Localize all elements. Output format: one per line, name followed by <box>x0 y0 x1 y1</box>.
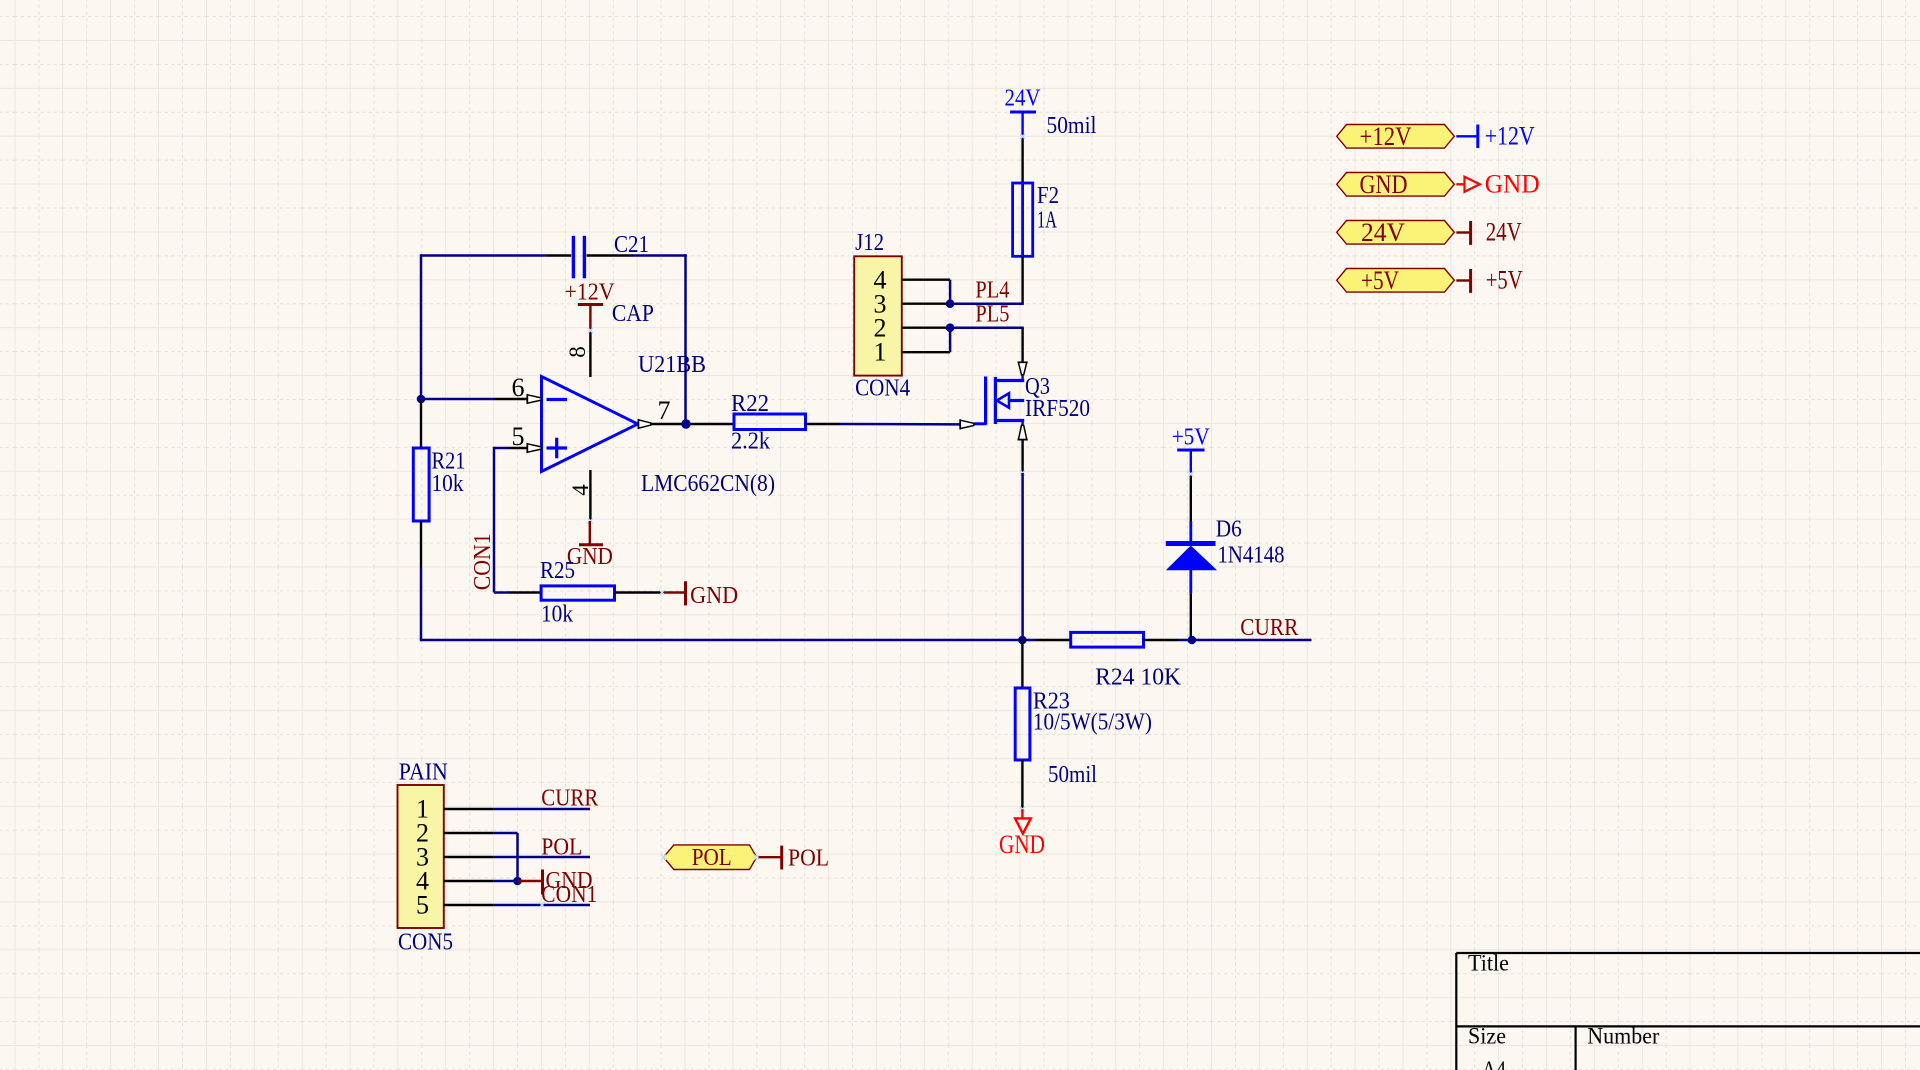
svg-text:D6: D6 <box>1216 517 1242 543</box>
svg-text:CURR: CURR <box>1240 615 1298 641</box>
svg-text:+12V: +12V <box>1360 122 1412 151</box>
svg-text:J12: J12 <box>855 230 884 256</box>
bottom rail wire <box>421 639 1022 642</box>
wire to pin 6 <box>421 398 494 401</box>
pin 6 of U21BB <box>494 398 528 400</box>
pin 4 of U21BB <box>589 470 591 521</box>
wire feedback top-right horizontal <box>633 254 687 257</box>
svg-text:4: 4 <box>568 484 593 496</box>
pin 2 stub of CON5 <box>444 832 494 834</box>
svg-text:R22: R22 <box>731 391 769 417</box>
wire net CON1 from CON5 pin5 <box>494 904 590 907</box>
svg-text:PL5: PL5 <box>975 302 1009 328</box>
pin drain of Q3 <box>1021 328 1023 363</box>
pin 8 of U21BB <box>589 331 591 378</box>
svg-text:+5V: +5V <box>1172 425 1211 451</box>
power port GND (op-amp pin 4) <box>589 521 591 545</box>
hex port +5V <box>1337 269 1455 293</box>
svg-text:6: 6 <box>512 373 525 402</box>
wire source down to rail <box>1021 473 1024 641</box>
hex port POL <box>664 845 757 870</box>
junction J12 pin2 <box>946 323 955 332</box>
op-amp plus input sign <box>547 446 568 449</box>
svg-text:GND: GND <box>1485 170 1540 199</box>
svg-text:5: 5 <box>512 422 525 451</box>
fuse F2 <box>1021 183 1024 256</box>
svg-text:POL: POL <box>788 845 829 871</box>
pin 5 stub of CON5 <box>444 904 494 906</box>
power port GND right red <box>1456 183 1464 185</box>
wire joining J12 pins 4-3 <box>949 280 952 304</box>
connector J12 body <box>854 256 902 375</box>
svg-text:24V: 24V <box>1005 86 1042 112</box>
wire pin5 vertical down <box>493 447 496 593</box>
wire net CURR from CON5 pin1 <box>494 808 590 811</box>
svg-text:7: 7 <box>658 396 671 425</box>
pin 1 stub of J12 <box>902 351 950 353</box>
svg-text:Size: Size <box>1468 1024 1506 1049</box>
connector CON5 body <box>398 785 444 928</box>
power port +12V (op-amp pin 8) <box>578 303 603 306</box>
pin 4 stub of J12 <box>902 279 950 281</box>
title block border <box>1456 952 1920 954</box>
power port GND bottom red <box>1021 809 1023 818</box>
wire feedback left vertical <box>420 254 423 399</box>
svg-text:PAIN: PAIN <box>399 760 448 786</box>
wire feedback top-left horizontal <box>421 254 547 257</box>
wire R22 to Q3 gate <box>840 423 960 426</box>
svg-text:24V: 24V <box>1486 218 1522 247</box>
junction diode-rail <box>1188 636 1197 645</box>
svg-text:+5V: +5V <box>1361 266 1399 295</box>
svg-text:50mil: 50mil <box>1047 113 1097 139</box>
junction at output node <box>681 419 691 429</box>
svg-text:10k: 10k <box>541 602 573 628</box>
pin 1 stub of CON5 <box>444 808 494 810</box>
power port GND at CON5 <box>518 880 543 882</box>
junction source-rail <box>1018 636 1027 645</box>
wire net PL4 <box>950 302 1024 305</box>
svg-text:LMC662CN(8): LMC662CN(8) <box>641 471 775 497</box>
wire rail right <box>1022 639 1036 642</box>
hex port GND <box>1337 173 1455 197</box>
svg-text:CON4: CON4 <box>855 376 910 402</box>
power port POL right of hex <box>759 856 781 858</box>
hex port 24V <box>1337 221 1455 245</box>
svg-text:+12V: +12V <box>1485 122 1535 151</box>
svg-text:24V: 24V <box>1361 218 1405 247</box>
op-amp minus input sign <box>547 398 568 401</box>
pin diode bottom <box>1190 593 1192 640</box>
wire CON5 pin2 to pin4 node <box>494 832 518 835</box>
op-amp U21BB triangle <box>542 377 638 472</box>
svg-text:U21BB: U21BB <box>638 352 706 378</box>
pin 3 stub of CON5 <box>444 856 494 858</box>
svg-text:2.2k: 2.2k <box>731 429 770 455</box>
svg-text:IRF520: IRF520 <box>1025 396 1090 422</box>
junction CON5 pin4 <box>513 877 522 886</box>
svg-text:Number: Number <box>1587 1024 1659 1049</box>
pin 4 stub of CON5 <box>444 880 494 882</box>
diode D6 <box>1189 521 1192 544</box>
junction J12 pin3 <box>946 299 955 308</box>
wire net PL5 <box>950 326 1024 329</box>
resistor R23 <box>1021 640 1023 688</box>
svg-text:50mil: 50mil <box>1048 762 1097 788</box>
pin 7 of U21BB output <box>638 420 650 428</box>
pin 5 of U21BB <box>508 447 528 449</box>
transistor Q3 MOSFET <box>984 377 987 425</box>
svg-text:10k: 10k <box>432 471 464 497</box>
resistor R21 <box>420 399 422 448</box>
wire CON5 pin4 segment <box>494 880 518 883</box>
pin 3 stub of J12 <box>902 303 950 305</box>
svg-text:8: 8 <box>565 346 590 358</box>
pin fuse bottom <box>1021 256 1023 303</box>
svg-text:1A: 1A <box>1037 208 1057 234</box>
wire R24 to diode node <box>1178 639 1192 642</box>
svg-text:PL4: PL4 <box>975 278 1009 304</box>
svg-text:A4: A4 <box>1482 1057 1506 1070</box>
svg-text:POL: POL <box>541 835 582 861</box>
svg-text:Title: Title <box>1468 951 1509 976</box>
svg-text:F2: F2 <box>1037 183 1059 209</box>
svg-text:C21: C21 <box>614 232 649 258</box>
svg-text:CON5: CON5 <box>398 930 453 956</box>
resistor R25 <box>494 591 509 594</box>
node junction at inverting input <box>417 395 426 404</box>
svg-text:GND: GND <box>1360 170 1408 199</box>
wire 24V to fuse <box>1021 136 1023 183</box>
svg-text:GND: GND <box>999 830 1045 859</box>
wire joining J12 pins 2-1 <box>949 328 952 353</box>
pin diode top <box>1190 474 1192 521</box>
svg-text:CURR: CURR <box>541 786 598 812</box>
svg-text:R25: R25 <box>540 558 575 584</box>
capacitor C21 <box>547 254 571 256</box>
svg-text:+12V: +12V <box>565 280 616 306</box>
power port 24V right <box>1456 231 1470 233</box>
svg-text:10/5W(5/3W): 10/5W(5/3W) <box>1033 710 1152 736</box>
svg-text:CON1: CON1 <box>470 533 496 590</box>
svg-text:+5V: +5V <box>1486 266 1523 295</box>
svg-text:1: 1 <box>874 337 887 366</box>
wire R21 to bottom rail <box>420 568 423 641</box>
pin source of Q3 <box>1018 425 1026 439</box>
wire net POL from CON5 pin3 <box>494 856 590 859</box>
resistor R22 <box>734 414 806 430</box>
svg-text:GND: GND <box>690 583 738 609</box>
svg-text:5: 5 <box>416 891 429 920</box>
power port GND (R25) <box>662 591 686 593</box>
wire net CURR <box>1192 639 1312 642</box>
svg-text:1N4148: 1N4148 <box>1218 543 1285 569</box>
pin gate of Q3 <box>960 420 974 428</box>
wire output node vertical <box>684 254 687 424</box>
pin 2 stub of J12 <box>902 327 950 329</box>
svg-text:R24 10K: R24 10K <box>1095 665 1182 691</box>
power port +12V right <box>1456 135 1478 137</box>
svg-text:POL: POL <box>692 845 732 871</box>
resistor R24 <box>1036 639 1071 641</box>
power port +5V right <box>1456 279 1470 281</box>
wire to pin 5 horizontal <box>494 447 508 450</box>
svg-text:CAP: CAP <box>612 301 654 327</box>
hex port +12V <box>1337 125 1455 149</box>
